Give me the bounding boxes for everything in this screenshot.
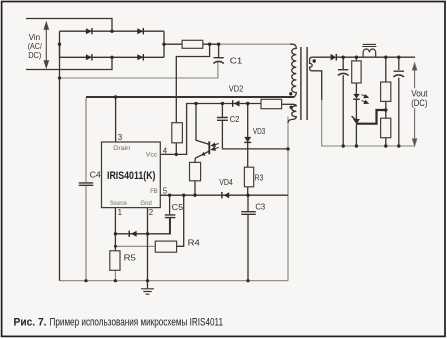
svg-text:Vout: Vout [411, 89, 428, 99]
svg-text:1: 1 [118, 208, 122, 217]
svg-text:4: 4 [163, 146, 168, 155]
svg-text:2: 2 [149, 208, 153, 217]
svg-text:5: 5 [163, 187, 168, 196]
svg-text:R5: R5 [124, 253, 136, 263]
svg-text:Source: Source [110, 200, 127, 207]
svg-text:VD3: VD3 [253, 126, 266, 136]
svg-text:Drain: Drain [113, 145, 130, 152]
svg-text:R3: R3 [255, 172, 264, 182]
svg-text:Рис. 7.: Рис. 7. [14, 316, 47, 328]
svg-text:C4: C4 [90, 170, 101, 180]
svg-text:C3: C3 [255, 202, 265, 212]
svg-text:DC): DC) [28, 50, 41, 60]
svg-text:VD4: VD4 [219, 177, 233, 187]
svg-text:(DC): (DC) [411, 98, 427, 108]
svg-text:Vcc: Vcc [146, 152, 158, 159]
svg-text:3: 3 [118, 133, 123, 142]
svg-text:R4: R4 [188, 238, 200, 248]
svg-text:FB: FB [150, 188, 158, 195]
svg-text:Пример использования микросхем: Пример использования микросхемы IRIS4011 [50, 316, 224, 328]
svg-text:Gnd: Gnd [140, 200, 152, 207]
svg-text:VD2: VD2 [229, 83, 244, 93]
svg-text:IRIS4011(K): IRIS4011(K) [107, 170, 156, 182]
svg-text:C2: C2 [230, 114, 240, 124]
svg-text:C1: C1 [230, 56, 243, 66]
svg-text:C5: C5 [172, 202, 184, 212]
